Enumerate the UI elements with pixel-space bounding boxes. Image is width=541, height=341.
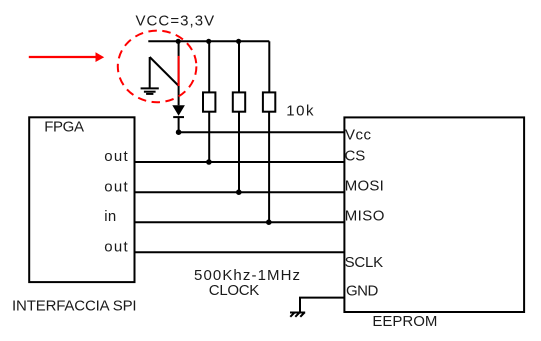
- svg-text:FPGA: FPGA: [44, 118, 84, 135]
- svg-text:out: out: [104, 148, 129, 165]
- svg-text:MISO: MISO: [345, 207, 385, 224]
- svg-text:GND: GND: [346, 282, 379, 299]
- svg-text:SCLK: SCLK: [345, 254, 384, 271]
- svg-text:out: out: [104, 178, 129, 195]
- svg-text:CLOCK: CLOCK: [209, 282, 259, 299]
- svg-text:in: in: [104, 208, 116, 225]
- svg-text:MOSI: MOSI: [345, 177, 384, 194]
- svg-text:out: out: [104, 239, 129, 256]
- svg-text:10k: 10k: [286, 103, 315, 120]
- svg-text:EEPROM: EEPROM: [372, 313, 437, 330]
- svg-text:Vcc: Vcc: [345, 127, 372, 144]
- svg-text:VCC=3,3V: VCC=3,3V: [136, 13, 216, 30]
- svg-text:CS: CS: [345, 148, 366, 165]
- svg-text:INTERFACCIA SPI: INTERFACCIA SPI: [12, 297, 136, 314]
